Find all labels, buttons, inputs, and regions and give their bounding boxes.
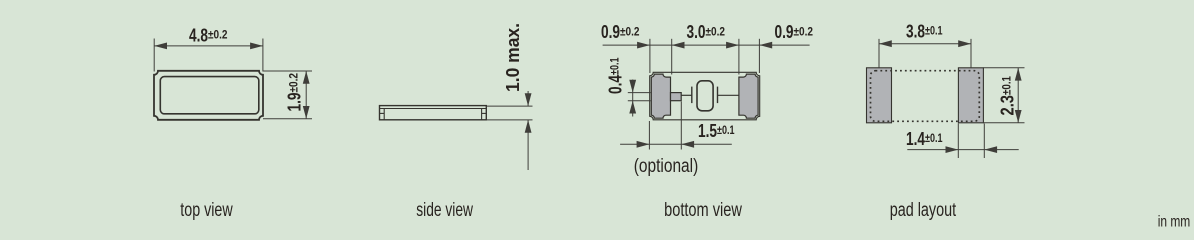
dimension 4.8 extension line left (153, 39, 155, 72)
dimension 0.4 arrow down (629, 80, 636, 93)
dimension 1.5 extension line left (648, 121, 650, 150)
crystal symbol Y1 body (697, 81, 713, 111)
crystal symbol Y1 plate left (691, 87, 693, 104)
side view left terminal (383, 109, 385, 120)
dimension 0.9 right arrow (outside pointing left) (759, 42, 772, 49)
svg-text:side view: side view (416, 199, 473, 221)
pad layout left pad (867, 68, 892, 123)
top view inner lid rectangle (160, 77, 258, 114)
pad layout dotted body outline (871, 71, 980, 122)
bottom dims extension line pad right inner (738, 39, 740, 75)
bottom view left pad (electrode 1) (651, 74, 670, 118)
svg-text:(optional): (optional) (634, 155, 699, 177)
dimension 2.3 extension line bottom (983, 122, 1024, 124)
dimension 0.4 extension line top (628, 92, 651, 94)
bottom dims extension line body right (758, 39, 760, 73)
svg-text:top view: top view (180, 199, 233, 221)
side view right terminal (481, 109, 483, 120)
bottom dims extension line pad left inner (671, 39, 673, 75)
dimension 1.5 arrow right (pointing left) (681, 141, 694, 148)
dimension 3.8 extension line left (878, 39, 880, 68)
svg-text:pad layout: pad layout (890, 199, 957, 221)
dimension 1.4 line (907, 149, 1018, 151)
dimension 3.8 extension line right (970, 39, 972, 68)
dimension 1.9 line (305, 71, 307, 119)
dimension 1.4 extension line right (983, 124, 985, 159)
svg-text:in mm: in mm (1158, 214, 1191, 231)
dimension 2.3 line (1017, 68, 1019, 123)
dimension 1.5 line (620, 143, 732, 145)
dimension 4.8 line (154, 45, 263, 47)
dimension 1.4 arrow right (pointing left) (984, 146, 997, 153)
bottom dims shared dimension line (603, 44, 810, 46)
crystal symbol Y1 plate right (717, 87, 719, 104)
bottom view right pad (electrode 2) (739, 74, 758, 118)
dimension 1.9 arrow top (303, 71, 310, 84)
dimension 2.3 arrow bottom (1015, 110, 1022, 123)
bottom view optional tab on left pad (671, 93, 682, 101)
dimension 0.4 line (632, 80, 634, 117)
dimension 1.5 extension line right (tab end) (680, 102, 682, 150)
svg-text:1.0 max.: 1.0 max. (503, 23, 523, 92)
bottom view body outline (650, 72, 760, 120)
dimension 0.9 left arrow (outside pointing right) (637, 42, 650, 49)
dimension 1.9 extension line top (263, 70, 312, 72)
dimension 1.9 extension line bottom (263, 118, 312, 120)
dimension 3.0 arrow left (pointing left) (672, 42, 685, 49)
crystal symbol Y1 lead left (681, 94, 692, 96)
dimension 1.0 line above (527, 91, 529, 106)
dimension 3.8 arrow right (958, 40, 971, 47)
dimension 0.4 arrow up (629, 101, 636, 114)
svg-text:bottom view: bottom view (664, 199, 742, 221)
dimension 1.9 arrow bottom (303, 106, 310, 119)
pad layout right pad (958, 68, 983, 123)
side view lid line (380, 108, 487, 110)
dimension 1.4 extension line left (957, 124, 959, 159)
dimension 1.4 arrow left (pointing right) (946, 146, 959, 153)
dimension 3.8 line (879, 43, 971, 45)
top view body outline (154, 71, 263, 120)
dimension 0.4 extension line bottom (628, 100, 651, 102)
dimension 3.8 arrow left (879, 40, 892, 47)
dimension 3.0 arrow right (pointing right) (726, 42, 739, 49)
dimension 1.0 extension line bottom (486, 119, 532, 121)
dimension 1.0 arrow up (525, 120, 532, 133)
dimension 1.0 extension line top (486, 105, 532, 107)
dimension 1.0 line below (527, 120, 529, 170)
side view body outline (380, 106, 487, 120)
dimension 2.3 extension line top (983, 67, 1024, 69)
bottom dims extension line body left (649, 39, 651, 73)
crystal symbol Y1 lead right (718, 94, 739, 96)
dimension 1.5 arrow left (pointing right) (637, 141, 650, 148)
dimension 4.8 arrow left (154, 43, 167, 50)
dimension 4.8 extension line right (262, 39, 264, 72)
dimension 2.3 arrow top (1015, 68, 1022, 81)
dimension 4.8 arrow right (250, 43, 263, 50)
dimension 1.0 arrow down (525, 93, 532, 106)
